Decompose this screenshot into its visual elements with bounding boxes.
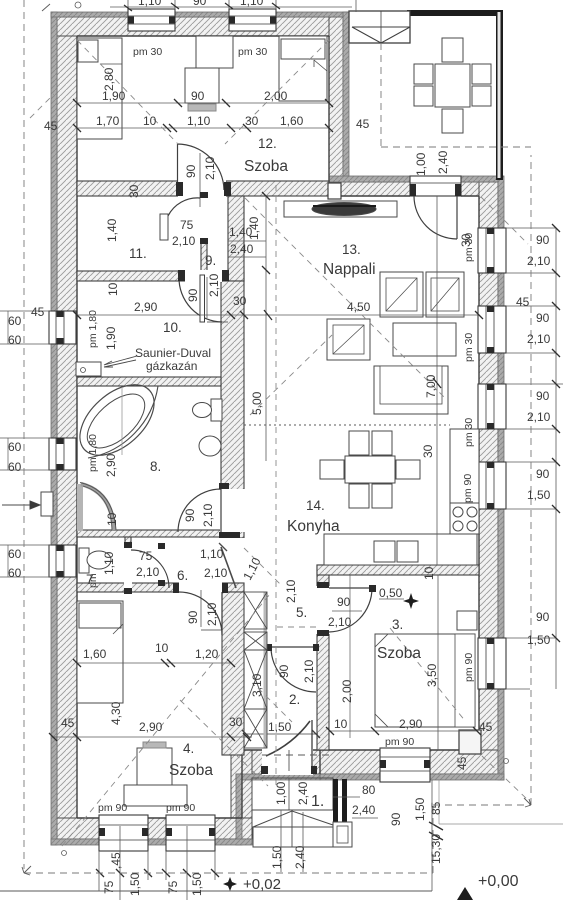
- svg-text:gázkazán: gázkazán: [146, 359, 197, 373]
- svg-text:pm: pm: [87, 573, 99, 588]
- vertical dim 5,00: [265, 196, 267, 461]
- kitchen sink: [374, 541, 395, 562]
- svg-text:pm 30: pm 30: [238, 46, 267, 58]
- band bottom-left wing: [51, 839, 252, 845]
- svg-text:80: 80: [362, 783, 376, 797]
- nappali armchair 3: [327, 319, 370, 360]
- spine wall lower (rooms 10/8 right): [221, 281, 244, 538]
- svg-text:pm 90: pm 90: [385, 736, 414, 748]
- boiler leader arrows: [104, 356, 137, 367]
- wall W6 partition 7|6: [125, 537, 131, 592]
- svg-text:2,40: 2,40: [293, 845, 307, 869]
- svg-text:85: 85: [429, 801, 443, 815]
- rooms11/9 small dims: [228, 241, 266, 257]
- band bottom-right: [320, 774, 504, 780]
- svg-text:9.: 9.: [205, 253, 216, 268]
- kitchen chairs: [349, 431, 369, 455]
- svg-text:3,10: 3,10: [250, 673, 264, 697]
- window right B: [478, 306, 506, 353]
- opening room3 door: [316, 586, 330, 634]
- door room9: hinge right, swings down into room 10: [179, 277, 222, 322]
- opening room11 door: [200, 198, 208, 238]
- doors: [124, 144, 457, 774]
- room12 desk between windows: [196, 36, 233, 68]
- window bottom entry wing: [380, 748, 430, 782]
- svg-text:8.: 8.: [150, 459, 161, 474]
- svg-text:30: 30: [233, 294, 247, 308]
- svg-text:2,40: 2,40: [230, 242, 254, 256]
- room11 door leaf: [160, 214, 168, 240]
- room12 dim row1: [77, 102, 329, 104]
- svg-text:45: 45: [61, 716, 75, 730]
- junction box at W1/NE wall: [328, 183, 341, 199]
- band right: [498, 176, 504, 780]
- svg-text:45: 45: [479, 720, 493, 734]
- room3 bedside table: [457, 611, 477, 630]
- svg-text:90: 90: [536, 610, 550, 624]
- svg-text:2,10: 2,10: [203, 156, 217, 180]
- svg-text:+0,00: +0,00: [478, 873, 519, 890]
- svg-text:30: 30: [421, 444, 435, 458]
- door room4: hinge right, swings down into room 4: [179, 592, 222, 635]
- window left 2: [49, 438, 76, 470]
- star room3: [403, 593, 419, 609]
- terrace steps box: [349, 11, 410, 43]
- svg-text:1,10: 1,10: [187, 114, 211, 128]
- room8 shower enclosure arc: [81, 484, 114, 530]
- svg-text:pm 30: pm 30: [463, 333, 475, 362]
- nappali TV console: [284, 201, 397, 217]
- svg-text:pm 90: pm 90: [463, 653, 475, 682]
- svg-text:90: 90: [389, 812, 403, 826]
- svg-text:2.: 2.: [289, 692, 300, 707]
- svg-text:2,10: 2,10: [328, 615, 352, 629]
- svg-text:2,00: 2,00: [340, 679, 354, 703]
- svg-text:10: 10: [105, 512, 119, 526]
- entry right extension: [333, 780, 432, 891]
- door room3: hinge left in wall, leaf into room 3: [329, 588, 372, 632]
- opening room8 door: [220, 489, 245, 532]
- svg-text:90: 90: [183, 508, 197, 522]
- svg-text:10: 10: [422, 566, 436, 580]
- dotted kitchen/nappali separator: [244, 424, 450, 426]
- left wing bottom wall hatch: [57, 818, 252, 839]
- interior walls: [77, 181, 479, 755]
- right bottom site lines: [439, 780, 563, 824]
- left wall service bracket: [41, 492, 53, 516]
- svg-text:45: 45: [455, 756, 469, 770]
- right wall hatch: [479, 182, 498, 774]
- room12 bed 2: [279, 36, 327, 101]
- left wall hatch core: [57, 17, 77, 839]
- svg-text:1.: 1.: [311, 793, 324, 810]
- room3 0,50 dim line: [379, 598, 404, 600]
- room3 bottom dim: [330, 730, 477, 732]
- svg-text:2,10: 2,10: [205, 602, 219, 626]
- svg-text:pm 90: pm 90: [166, 802, 195, 814]
- star +0,02: [223, 877, 237, 891]
- svg-text:45: 45: [356, 117, 370, 131]
- door terrace to nappali: hinge right: [414, 196, 457, 239]
- svg-text:14.: 14.: [306, 498, 325, 513]
- kitchen right counter: [450, 429, 479, 534]
- svg-text:2,10: 2,10: [136, 565, 160, 579]
- svg-text:90: 90: [186, 288, 200, 302]
- nappali armchair 2: [426, 272, 464, 317]
- opening main entry: [262, 749, 313, 775]
- opening room6 door: [124, 548, 132, 588]
- wall room2|room3: [317, 565, 329, 750]
- svg-text:2,00: 2,00: [264, 89, 288, 103]
- door room11: leaf open against wall: [168, 198, 200, 216]
- bottom window extension lines: [99, 826, 215, 900]
- svg-text:5,00: 5,00: [250, 391, 264, 415]
- svg-text:1,50: 1,50: [268, 720, 292, 734]
- band NE wall terrace side: [343, 12, 349, 182]
- svg-text:90: 90: [193, 0, 207, 8]
- room12 bed: [77, 38, 122, 139]
- svg-text:pm 30: pm 30: [463, 418, 475, 447]
- door room6 to hall: open leaf diagonal: [221, 547, 236, 588]
- svg-text:15,30: 15,30: [429, 834, 443, 864]
- dim line entry: [333, 797, 352, 815]
- top wall hatch core: [57, 17, 349, 36]
- room10/nappali dim line: [77, 314, 479, 316]
- terrace table: [435, 64, 470, 107]
- svg-text:+0,02: +0,02: [243, 876, 281, 893]
- wall room4 right / closet back: [222, 592, 244, 755]
- wall W5 between 8 and 7/6: [77, 530, 221, 537]
- svg-text:75: 75: [139, 549, 153, 563]
- middle bottom wall hatch: [242, 750, 320, 774]
- svg-text:4,30: 4,30: [109, 701, 123, 725]
- service arrow: [2, 501, 40, 509]
- svg-text:1,60: 1,60: [280, 114, 304, 128]
- entry 80 dim line: [333, 791, 358, 793]
- svg-text:2,90: 2,90: [399, 717, 423, 731]
- svg-text:90: 90: [337, 595, 351, 609]
- room12 chair: [185, 68, 219, 103]
- wall W3 under rooms 11/9: [77, 271, 244, 281]
- band top: [51, 12, 355, 17]
- nappali armchair 1: [380, 272, 423, 317]
- opening terrace door: [410, 175, 461, 197]
- bottom-right wing wall hatch: [320, 750, 498, 774]
- terrace-bottom / nappali-top wall hatch: [329, 182, 498, 196]
- svg-text:1,90: 1,90: [104, 326, 118, 350]
- window left 1: [49, 311, 76, 344]
- svg-text:pm 30: pm 30: [133, 46, 162, 58]
- entry porch pillar: [333, 779, 352, 847]
- door room12: hinge left, swings up into room: [178, 144, 225, 190]
- svg-text:30: 30: [245, 114, 259, 128]
- wall W7 above room 4: [77, 583, 244, 592]
- svg-text:2,10: 2,10: [527, 410, 551, 424]
- svg-text:2,10: 2,10: [527, 332, 551, 346]
- svg-text:90: 90: [536, 467, 550, 481]
- wall W4 between 10 and 8: [77, 377, 221, 386]
- svg-text:1,50: 1,50: [527, 488, 551, 502]
- room10 boiler: [76, 362, 101, 376]
- window right C: [478, 384, 506, 429]
- room8 bidet: [199, 436, 221, 456]
- svg-text:2,40: 2,40: [352, 803, 376, 817]
- svg-text:30: 30: [127, 184, 141, 198]
- kitchen bottom counter: [324, 534, 477, 565]
- svg-text:Nappali: Nappali: [323, 261, 376, 278]
- hall dim 1,50: [246, 730, 318, 732]
- room3 bed: [375, 634, 475, 727]
- svg-text:2,10: 2,10: [207, 273, 221, 297]
- terrace chairs: [442, 38, 463, 62]
- opening room4 door: [179, 582, 222, 593]
- svg-text:60: 60: [8, 314, 22, 328]
- svg-text:2,90: 2,90: [139, 720, 163, 734]
- room8 toilet: [193, 399, 223, 421]
- svg-text:Szoba: Szoba: [244, 158, 288, 175]
- room12 pillow: [78, 40, 98, 62]
- terrace right edge beam: [496, 10, 503, 180]
- connector wall left of entry hatch: [236, 750, 252, 839]
- room3 door dim lines: [332, 610, 362, 612]
- room7 toilet: [79, 548, 111, 573]
- window right D kitchen: [478, 462, 506, 509]
- wall W2 partition rooms 11|9: [201, 196, 207, 273]
- svg-text:10: 10: [106, 282, 120, 296]
- window top 1: [128, 9, 175, 31]
- svg-text:1,20: 1,20: [195, 647, 219, 661]
- band connector: [236, 774, 242, 845]
- svg-text:60: 60: [8, 547, 22, 561]
- svg-text:11.: 11.: [129, 246, 147, 261]
- entry door leaf: [266, 721, 310, 756]
- spine wall upper (room9 right): [228, 196, 244, 281]
- svg-text:Szoba: Szoba: [169, 762, 213, 779]
- bottom dim long line: [0, 890, 432, 892]
- outer gray bands: [51, 12, 504, 845]
- svg-text:3.: 3.: [392, 617, 403, 632]
- hall closet X boxes: [244, 592, 267, 748]
- door openings cut into walls: [124, 175, 461, 775]
- svg-text:90: 90: [536, 311, 550, 325]
- right vertical dim line: [555, 228, 557, 689]
- svg-text:90: 90: [184, 164, 198, 178]
- corner pillar square bottom right: [459, 730, 481, 754]
- wall room3 top: [317, 565, 479, 575]
- svg-text:60: 60: [8, 460, 22, 474]
- kitchen pass end of spine: [220, 538, 245, 540]
- room8 corner bathtub: [88, 386, 158, 458]
- svg-text:0,50: 0,50: [379, 586, 403, 600]
- vertical dim 7,00: [436, 196, 438, 565]
- opening room9 door in W3: [185, 270, 222, 282]
- band terrace bottom: [329, 176, 503, 182]
- svg-text:75: 75: [166, 880, 180, 894]
- svg-text:90: 90: [536, 389, 550, 403]
- svg-text:2,90: 2,90: [104, 453, 118, 477]
- svg-text:Konyha: Konyha: [287, 518, 340, 535]
- svg-text:2,80: 2,80: [102, 67, 116, 91]
- room12 dim row2: [77, 127, 329, 129]
- svg-text:pm 90: pm 90: [462, 474, 474, 503]
- band middle bottom: [236, 774, 320, 780]
- door hall5 to room2: hinge left: [271, 647, 316, 692]
- svg-text:1,50: 1,50: [190, 872, 204, 896]
- svg-text:90: 90: [186, 610, 200, 624]
- svg-text:2,40: 2,40: [436, 150, 450, 174]
- right wall window dim lines: [506, 228, 563, 689]
- svg-text:Szoba: Szoba: [377, 645, 421, 662]
- room4 bed: [77, 601, 123, 703]
- svg-text:90: 90: [277, 664, 291, 678]
- svg-text:1,10: 1,10: [200, 547, 224, 561]
- svg-text:1,50: 1,50: [128, 872, 142, 896]
- svg-text:13.: 13.: [342, 242, 361, 257]
- svg-text:2,10: 2,10: [172, 234, 196, 248]
- door room8: hinge bottom-right, swings into room 8: [178, 489, 221, 532]
- wall W1 under room 12: [77, 181, 329, 196]
- svg-text:1,00: 1,00: [414, 152, 428, 176]
- svg-text:45: 45: [44, 119, 58, 133]
- svg-text:12.: 12.: [258, 136, 277, 151]
- svg-text:60: 60: [8, 566, 22, 580]
- svg-text:4,50: 4,50: [347, 300, 371, 314]
- svg-text:7,00: 7,00: [424, 374, 438, 398]
- kitchen stove burners: [453, 507, 477, 531]
- svg-text:2,10: 2,10: [201, 503, 215, 527]
- window left 3: [49, 545, 76, 577]
- nappali sofa: [374, 366, 448, 414]
- terrace door box: [410, 176, 461, 196]
- svg-text:pm 1,80: pm 1,80: [87, 310, 99, 348]
- room4 dresser: [137, 748, 172, 785]
- dashed roof diagonals: [30, 40, 530, 846]
- window top 2: [229, 9, 276, 31]
- svg-text:10: 10: [334, 717, 348, 731]
- svg-text:1,50: 1,50: [527, 633, 551, 647]
- svg-text:1,60: 1,60: [83, 647, 107, 661]
- svg-text:pm 90: pm 90: [98, 802, 127, 814]
- svg-text:3,50: 3,50: [425, 663, 439, 687]
- svg-text:Saunier-Duval: Saunier-Duval: [135, 346, 211, 360]
- svg-text:30: 30: [229, 715, 243, 729]
- svg-text:2,10: 2,10: [204, 566, 228, 580]
- left wall window dim lines: [0, 311, 51, 577]
- svg-text:60: 60: [8, 440, 22, 454]
- svg-text:10.: 10.: [163, 320, 182, 335]
- svg-text:2,90: 2,90: [134, 300, 158, 314]
- svg-text:45: 45: [31, 305, 45, 319]
- svg-text:5.: 5.: [296, 605, 307, 620]
- exterior walls: [51, 12, 504, 845]
- vertical dim 3,50 room3: [437, 575, 439, 750]
- terrace top edge beam: [407, 10, 503, 16]
- svg-text:90: 90: [536, 233, 550, 247]
- svg-text:1,10: 1,10: [138, 0, 162, 8]
- svg-text:1,50: 1,50: [270, 845, 284, 869]
- svg-text:1,70: 1,70: [96, 114, 120, 128]
- svg-text:75: 75: [180, 218, 194, 232]
- room4 bottom dim row: [52, 736, 252, 738]
- svg-text:90: 90: [191, 89, 205, 103]
- entry porch landing: [252, 778, 333, 810]
- NE wall (room12/terrace) hatch: [329, 17, 343, 182]
- top dimension line: [110, 6, 352, 8]
- svg-text:2,10: 2,10: [527, 254, 551, 268]
- entry porch dim verticals: [270, 780, 305, 876]
- benchmark +0,00: [457, 887, 473, 900]
- window bottom room4 a: [99, 815, 148, 851]
- room12 gray mat: [188, 104, 216, 111]
- svg-text:60: 60: [8, 333, 22, 347]
- windows: [49, 9, 506, 851]
- band left: [51, 12, 57, 845]
- room8 shower tray: [77, 484, 83, 531]
- window bottom room4 b: [166, 815, 215, 851]
- svg-text:2,40: 2,40: [296, 781, 310, 805]
- window right E room3: [478, 638, 506, 689]
- svg-text:45: 45: [516, 295, 530, 309]
- kitchen dining table: [345, 456, 395, 483]
- svg-text:1,40: 1,40: [247, 216, 261, 240]
- svg-text:1,40: 1,40: [105, 218, 119, 242]
- svg-text:2,10: 2,10: [302, 659, 316, 683]
- room4 dim row: [77, 662, 231, 664]
- svg-text:10: 10: [155, 641, 169, 655]
- svg-text:1,10: 1,10: [102, 551, 116, 575]
- svg-text:30: 30: [459, 233, 473, 247]
- svg-text:1,00: 1,00: [274, 781, 288, 805]
- terrace: [349, 10, 503, 180]
- inner face lines: [77, 36, 479, 818]
- opening room12 door: [178, 180, 226, 197]
- nappali coffee table: [393, 323, 456, 356]
- svg-text:pm 1,80: pm 1,80: [87, 434, 99, 472]
- room2 bottom dim line: [246, 733, 318, 735]
- svg-text:2,10: 2,10: [284, 579, 298, 603]
- nappali TV: [312, 203, 376, 216]
- door room6: hinge left wall, swings into room 6: [131, 550, 169, 588]
- svg-text:1,10: 1,10: [240, 0, 264, 8]
- entry steps gable: [253, 811, 333, 827]
- svg-text:75: 75: [102, 880, 116, 894]
- svg-text:,45: ,45: [109, 852, 123, 869]
- svg-text:6.: 6.: [177, 568, 188, 583]
- small circles: [75, 2, 81, 8]
- svg-text:1,50: 1,50: [413, 797, 427, 821]
- window right A nappali: [478, 228, 506, 273]
- eaves corner arrows: [22, 866, 31, 875]
- svg-text:10: 10: [143, 114, 157, 128]
- svg-text:4.: 4.: [183, 741, 194, 756]
